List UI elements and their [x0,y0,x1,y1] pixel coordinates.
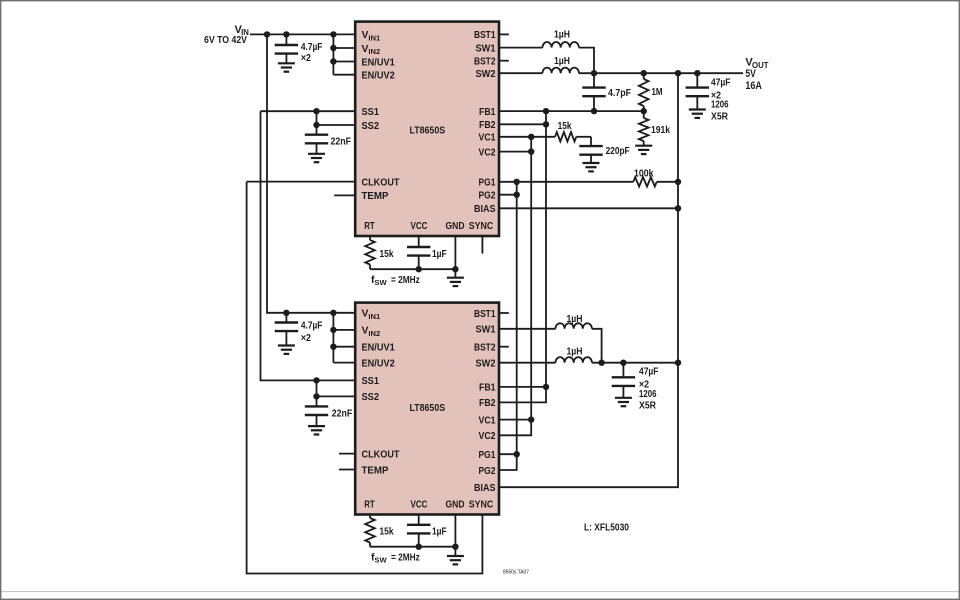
node VOUT bus vertical junction [675,70,681,76]
node VOUT bus junction (bottom SW2) [675,360,681,366]
node VIN / input cap junction [283,31,289,37]
node VIN2 junction U1 [330,45,336,51]
node GND row junction (bottom) [452,544,458,550]
wire VOUT bus vertical to U2 BIAS [499,73,678,487]
svg-text:SW1: SW1 [476,325,496,336]
wire U2 VC1 row [499,419,531,421]
wire U2 EN/UV2 pin [333,362,355,364]
resistor 1M divider top [643,73,645,79]
resistor 100k PG pull-up [499,181,633,183]
svg-text:GND: GND [446,500,465,511]
svg-text:15k: 15k [558,121,572,132]
svg-text:IN1: IN1 [368,312,381,321]
wire U2 FB1 row [499,386,546,388]
node SW join (bottom) [598,360,604,366]
svg-text:BST2: BST2 [474,343,496,354]
svg-text:15k: 15k [380,527,394,538]
wire U1 GND pin down [454,236,456,278]
wire U1 VIN2 pin [333,47,355,49]
wire U2 BST2 stub [499,346,509,348]
svg-text:TEMP: TEMP [362,191,389,202]
capacitor 22nF soft-start (top) [316,111,318,135]
svg-text:IN1: IN1 [368,33,381,42]
svg-text:SW2: SW2 [476,69,496,80]
node VIN / EN tie junction [330,31,336,37]
wire RT-VCC-GND row (top) [370,268,455,270]
node SW join (top) [591,70,597,76]
node 100k to VOUT bus junction [675,179,681,185]
svg-text:EN/UV2: EN/UV2 [362,358,395,369]
svg-text:FB1: FB1 [479,383,496,394]
capacitor input 4.7uF x2 (top) [285,34,287,45]
wire U2 BST1 stub [499,312,509,314]
svg-text:BIAS: BIAS [474,204,496,215]
svg-text:15k: 15k [380,249,394,260]
node EN/UV1 junction U1 [330,58,336,64]
svg-text:TEMP: TEMP [362,465,389,476]
svg-text:1µF: 1µF [432,527,447,538]
svg-text:6V TO 42V: 6V TO 42V [204,35,247,46]
node U2 VIN / input cap junction [283,310,289,316]
wire VIN2-EN tie vertical U1 [332,34,334,74]
svg-text:1µH: 1µH [554,30,570,41]
svg-text:SYNC: SYNC [469,221,494,232]
inductor 1uH SW2 (top) [499,72,543,74]
ground 47uF (top) [689,108,706,110]
svg-text:SYNC: SYNC [469,500,494,511]
wire U2 GND pin down [454,515,456,557]
ground input cap (top) [278,62,295,64]
svg-text:16A: 16A [745,80,762,92]
wire U1 TEMP stub [334,194,355,196]
svg-text:1µH: 1µH [554,56,570,67]
node 4.7pF bottom junction [591,108,597,114]
wire U2 VIN2 pin [333,329,355,331]
wire PG tie vertical U1-U2 [499,182,517,470]
svg-text:SS1: SS1 [362,107,380,118]
wire U1 FB1 row [499,110,644,112]
capacitor 47uF output x2 (bottom) [622,363,624,378]
svg-text:SS2: SS2 [362,392,380,403]
wire SS bus U1 to U2 [261,111,356,380]
svg-text:= 2MHz: = 2MHz [391,275,420,286]
svg-text:EN/UV2: EN/UV2 [362,71,395,82]
svg-text:CLKOUT: CLKOUT [362,177,401,188]
wire U1 BIAS row [499,207,678,209]
svg-text:BST2: BST2 [474,57,496,68]
svg-text:SW: SW [374,278,387,287]
node 1M/191k divider junction [641,108,647,114]
node U2 VIN / EN tie junction [330,310,336,316]
svg-text:SS1: SS1 [362,376,380,387]
ground U1 GND [447,277,464,279]
capacitor 22nF soft-start (bottom) [316,380,318,407]
node U1 SS2 junction [313,122,319,128]
wire U1 CLKOUT to sync loop [247,181,356,183]
wire U1 PG2 row [499,194,517,196]
node PG tie junction (bottom PG1) [514,451,520,457]
node U2 SS1 / 22nF junction [313,377,319,383]
svg-text:VCC: VCC [411,500,428,511]
capacitor 1uF VCC (bottom) [418,515,420,525]
svg-text:FB2: FB2 [479,120,496,131]
node VC tie junction (top VC1) [528,134,534,140]
svg-text:LT8650S: LT8650S [410,403,446,414]
wire U2 PG1 row [499,453,517,455]
node BIAS to VOUT bus junction (top) [675,205,681,211]
svg-text:22nF: 22nF [331,136,352,147]
svg-text:1µH: 1µH [567,314,583,325]
node GND row junction (top) [452,266,458,272]
node VC2 tie junction (top) [528,148,534,154]
svg-text:1206: 1206 [711,100,729,111]
svg-text:5V: 5V [745,68,756,80]
svg-text:PG2: PG2 [479,191,496,202]
node PG2 tie junction (top) [514,192,520,198]
wire U1 EN/UV1 pin [333,61,355,63]
svg-text:22nF: 22nF [332,409,353,420]
wire U2 SS2 pin [317,395,356,397]
node EN/UV1 junction U2 [330,344,336,350]
resistor 15k RT (bottom) [369,515,371,519]
node VIN2 junction U2 [330,327,336,333]
wire SW2 output to VOUT bus (bottom) [592,362,678,364]
node VIN / down-feed junction [264,31,270,37]
svg-text:SW2: SW2 [476,359,496,370]
node FB tie top junction [543,108,549,114]
svg-text:EN/UV1: EN/UV1 [362,57,395,68]
ground 220pF [583,162,600,164]
wire U1 SYNC stub [481,236,483,254]
svg-text:GND: GND [446,221,465,232]
svg-text:VC2: VC2 [479,431,496,442]
wire U2 EN/UV1 pin [333,346,355,348]
svg-text:BST1: BST1 [474,30,496,41]
svg-text:8650s TA07: 8650s TA07 [503,570,529,576]
svg-text:RT: RT [364,221,375,232]
wire U1 FB2 row [499,123,546,125]
svg-text:VC2: VC2 [479,147,496,158]
node PG tie junction (top PG1) [514,179,520,185]
svg-text:4.7pF: 4.7pF [608,88,631,99]
svg-text:IN2: IN2 [368,329,380,338]
wire U1 BST1 stub [499,33,509,35]
ground 22nF cap (top) [308,153,325,155]
svg-text:IN2: IN2 [368,47,380,56]
svg-text:4.7µF: 4.7µF [301,42,323,53]
resistor 15k VC1 compensation [499,136,555,138]
ground 191k [635,145,652,147]
svg-text:47µF: 47µF [639,367,659,378]
svg-text:VCC: VCC [411,221,428,232]
svg-text:BIAS: BIAS [474,483,496,494]
svg-text:EN/UV1: EN/UV1 [362,343,395,354]
svg-text:100k: 100k [634,168,654,179]
node 1M top junction [641,70,647,76]
svg-text:1M: 1M [652,87,663,98]
svg-text:VC1: VC1 [479,415,496,426]
node 47uF output cap junction (top) [694,70,700,76]
svg-text:47µF: 47µF [711,77,731,88]
wire VC tie vertical U1-U2 [499,137,531,436]
capacitor input 4.7uF x2 (bottom) [285,313,287,324]
node U1 SS1 / 22nF junction [313,108,319,114]
capacitor 1uF VCC (top) [418,236,420,247]
wire FB tie vertical U1-U2 [499,111,546,402]
op-amp U1 LT8650S regulator body [355,22,499,236]
svg-text:= 2MHz: = 2MHz [391,552,420,563]
svg-text:CLKOUT: CLKOUT [362,449,401,460]
ground input cap (bottom) [278,344,295,346]
svg-text:VC1: VC1 [479,133,496,144]
capacitor 47uF output x2 (top) [696,73,698,88]
ground 47uF (bottom) [615,397,632,399]
inductor 1uH SW1 (bottom) [499,328,556,330]
svg-text:191k: 191k [651,125,670,136]
svg-text:FB2: FB2 [479,398,496,409]
wire sync loop: U2 SYNC to U1 CLKOUT [247,182,483,574]
node U2 SS2 junction [313,393,319,399]
capacitor 220pF compensation [590,137,592,147]
svg-text:SW: SW [374,556,387,565]
wire U1 SS1 to SS bus [261,110,356,112]
node VC tie junction (bottom VC1) [528,416,534,422]
svg-text:4.7µF: 4.7µF [301,320,323,331]
wire U2 TEMP stub [339,469,355,471]
capacitor 4.7pF feed-forward [593,73,595,88]
inductor 1uH SW2 (bottom) [499,362,556,364]
ground 22nF cap (bottom) [308,425,325,427]
svg-text:PG1: PG1 [479,450,496,461]
svg-text:X5R: X5R [711,112,728,123]
node FB2 tie junction (top) [543,121,549,127]
wire U1 SS2 pin [317,124,356,126]
svg-text:×2: ×2 [301,333,311,344]
svg-text:SS2: SS2 [362,121,380,132]
wire VIN to U1 VIN1 [250,33,355,35]
node 47uF junction (bottom) [620,360,626,366]
svg-text:SW1: SW1 [476,43,496,54]
svg-text:220pF: 220pF [606,146,630,157]
node VCC cap / row junction (top) [416,266,422,272]
wire U1 EN/UV2 pin [333,74,355,76]
op-amp U2 LT8650S regulator body [355,303,499,515]
wire RT-VCC-GND row (bottom) [370,546,455,548]
wire U2 CLKOUT stub [339,453,355,455]
inductor 1uH SW1 (top) [499,47,543,49]
resistor 15k RT (top) [369,236,371,240]
resistor 191k divider bottom [643,111,645,118]
svg-text:RT: RT [364,500,375,511]
svg-text:L: XFL5030: L: XFL5030 [584,523,629,534]
wire U1 BST2 stub [499,60,509,62]
node FB tie junction (bottom FB1) [543,384,549,390]
svg-text:PG1: PG1 [479,178,496,189]
svg-text:×2: ×2 [301,53,311,64]
ground U2 GND [447,555,464,557]
svg-text:1µH: 1µH [567,347,583,358]
node VCC cap / row junction (bottom) [416,544,422,550]
svg-text:LT8650S: LT8650S [410,126,446,137]
wire U1 VC2 row [499,151,531,153]
svg-text:1µF: 1µF [432,249,447,260]
wire VIN down-feed to U2 [267,34,355,312]
svg-text:FB1: FB1 [479,107,496,118]
svg-text:BST1: BST1 [474,309,496,320]
svg-text:1206: 1206 [639,389,657,400]
svg-text:X5R: X5R [639,401,656,412]
wire VOUT rail (top) [579,72,743,74]
svg-text:PG2: PG2 [479,466,496,477]
wire VIN2-EN tie vertical U2 [332,313,334,363]
